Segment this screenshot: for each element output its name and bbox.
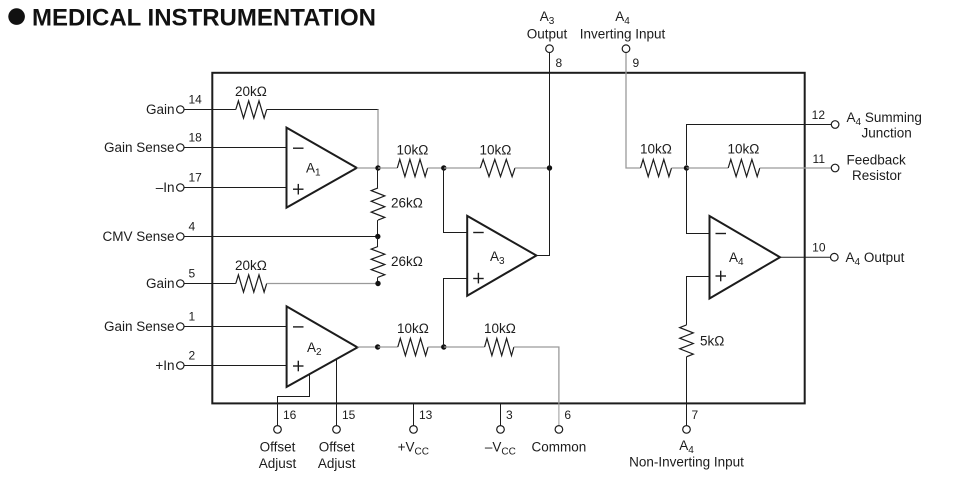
svg-text:7: 7 — [692, 408, 699, 422]
svg-text:3: 3 — [506, 408, 513, 422]
wire 10k second to pin8 column node — [515, 167, 549, 169]
IC boundary box — [212, 73, 804, 404]
svg-text:15: 15 — [342, 408, 356, 422]
svg-text:–In: –In — [156, 180, 175, 195]
svg-text:Adjust: Adjust — [318, 456, 356, 471]
resistor 26k lower — [371, 247, 385, 278]
svg-text:5: 5 — [189, 267, 196, 281]
pin 15 terminal circle — [333, 426, 341, 434]
svg-text:Gain: Gain — [146, 102, 175, 117]
svg-text:11: 11 — [813, 152, 826, 166]
svg-text:20kΩ: 20kΩ — [235, 84, 267, 99]
svg-text:2: 2 — [189, 349, 196, 363]
op-amp A3 — [467, 216, 536, 296]
node A2 output junction — [375, 344, 380, 349]
svg-text:Inverting Input: Inverting Input — [580, 27, 666, 42]
svg-text:4: 4 — [189, 220, 196, 234]
wire summing node to A4 minus input — [687, 168, 710, 234]
svg-text:Gain: Gain — [146, 276, 175, 291]
svg-text:17: 17 — [189, 171, 203, 185]
svg-text:Non-Inverting Input: Non-Inverting Input — [629, 455, 744, 470]
wire corner down to A1 output node — [377, 110, 379, 169]
pin 10 terminal circle — [831, 253, 839, 261]
svg-text:14: 14 — [189, 93, 203, 107]
pin 6 stub wire — [558, 403, 560, 425]
wire pin14 row to resistor — [212, 109, 236, 111]
svg-text:8: 8 — [556, 56, 563, 70]
svg-text:26kΩ: 26kΩ — [391, 254, 423, 269]
wire 10k second to pin6 corner — [514, 347, 559, 403]
wire pin1 row to A2 minus input — [212, 326, 286, 328]
svg-text:10kΩ: 10kΩ — [397, 321, 429, 336]
pin 4 terminal circle (CMV Sense) — [177, 233, 184, 240]
node pin5 gain junction — [375, 281, 380, 286]
pin 16 terminal circle — [274, 426, 282, 434]
wire 5k down to pin 7 — [686, 357, 688, 426]
wire 20k to node — [267, 283, 378, 285]
svg-text:1: 1 — [189, 310, 196, 324]
svg-text:Offset: Offset — [319, 440, 355, 455]
svg-text:Common: Common — [532, 440, 587, 455]
wire node to 26k upper — [377, 168, 379, 188]
svg-text:10kΩ: 10kΩ — [728, 142, 760, 157]
wire node2 to 10k second — [444, 167, 480, 169]
pin 14 terminal circle (Gain) — [177, 106, 184, 113]
resistor 10k (A1 out row, second) — [480, 159, 515, 176]
node pin8 column junction — [547, 165, 552, 170]
svg-text:16: 16 — [283, 408, 297, 422]
svg-text:Gain Sense: Gain Sense — [104, 140, 175, 155]
node A1 output junction — [375, 165, 380, 170]
pin 1 stub wire — [184, 326, 212, 328]
wire pin5 row to resistor — [212, 283, 236, 285]
svg-text:Output: Output — [527, 27, 568, 42]
pin 13 stub wire — [413, 403, 415, 425]
wire 10k to node2 — [428, 167, 444, 169]
pin 12 terminal circle — [831, 121, 839, 129]
wire pin8 column above box — [549, 53, 551, 169]
svg-text:9: 9 — [633, 56, 640, 70]
svg-text:20kΩ: 20kΩ — [235, 258, 267, 273]
wire pin17 row to A1 plus input — [212, 187, 286, 189]
wire pin2 row to A2 plus input — [212, 365, 286, 367]
pin 5 stub wire — [184, 283, 212, 285]
wire top mid node down to A3 minus — [444, 168, 468, 233]
op-amp A4 — [710, 216, 781, 299]
svg-text:Feedback: Feedback — [847, 153, 907, 168]
wire node to 10k feedback — [686, 167, 728, 169]
pin 8 terminal circle — [546, 45, 554, 53]
wire 10k to node2 — [428, 346, 444, 348]
pin 2 stub wire — [184, 365, 212, 367]
svg-text:12: 12 — [812, 108, 826, 122]
pin 1 terminal circle (Gain Sense) — [177, 323, 184, 330]
resistor 20k (top, pin14 gain) — [236, 101, 267, 118]
wire offset adjust 2 (to pin 15) — [336, 359, 338, 426]
svg-text:5kΩ: 5kΩ — [700, 334, 724, 349]
wire pin12 to summing node — [687, 125, 832, 166]
resistor 26k upper — [371, 188, 385, 220]
pin 4 stub wire — [184, 236, 212, 238]
svg-text:CMV Sense: CMV Sense — [102, 229, 174, 244]
wire node2 to 10k second — [444, 346, 485, 348]
wire 26k lower to gain node — [377, 277, 379, 283]
svg-text:–VCC: –VCC — [485, 440, 516, 458]
pin 9 terminal circle — [622, 45, 630, 53]
resistor 5k — [680, 325, 694, 357]
pin 3 terminal circle — [497, 426, 505, 434]
pin 17 terminal circle (–In) — [177, 184, 184, 191]
pin 17 stub wire — [184, 187, 212, 189]
svg-text:10kΩ: 10kΩ — [640, 142, 672, 157]
resistor 10k (A1 out row, first) — [397, 159, 427, 176]
wire A2 output to node — [358, 346, 378, 348]
wire A3 output — [536, 168, 549, 256]
node top row mid junction — [441, 165, 446, 170]
pin 15 stub wire — [336, 403, 338, 425]
svg-text:A4: A4 — [679, 438, 694, 456]
wire pin4 CMV Sense row to node — [212, 236, 377, 238]
svg-text:MEDICAL INSTRUMENTATION: MEDICAL INSTRUMENTATION — [32, 5, 376, 32]
svg-text:10: 10 — [812, 241, 826, 255]
wire bottom mid node up to A3 plus — [444, 279, 468, 348]
resistor 10k (feedback) — [728, 159, 760, 176]
wire pin9 column — [626, 53, 641, 169]
svg-text:13: 13 — [419, 408, 433, 422]
svg-text:Gain Sense: Gain Sense — [104, 319, 175, 334]
svg-text:Junction: Junction — [862, 126, 912, 141]
node CMV sense junction — [375, 234, 380, 239]
svg-text:26kΩ: 26kΩ — [391, 196, 423, 211]
wire 10k to summing node — [672, 167, 687, 169]
svg-text:10kΩ: 10kΩ — [480, 143, 512, 158]
wire 20k to corner — [267, 109, 379, 111]
wire node to 10k — [378, 167, 397, 169]
op-amp A2 — [287, 306, 358, 387]
svg-text:Adjust: Adjust — [259, 456, 297, 471]
svg-text:10kΩ: 10kΩ — [484, 321, 516, 336]
wire A4 output to pin 10 — [780, 256, 831, 258]
svg-text:A4 Output: A4 Output — [846, 250, 905, 268]
pin 13 terminal circle — [410, 426, 418, 434]
pin 7 terminal circle — [683, 426, 691, 434]
pin 14 stub wire — [184, 109, 212, 111]
pin 3 stub wire — [500, 403, 502, 425]
wire feedback 10k to pin 11 — [760, 167, 832, 169]
title bullet — [8, 8, 25, 25]
svg-text:A4: A4 — [615, 9, 630, 27]
svg-text:+In: +In — [155, 358, 174, 373]
svg-text:+VCC: +VCC — [398, 440, 429, 458]
pin 2 terminal circle (+In) — [177, 362, 184, 369]
resistor 10k (A2 out row, first) — [398, 338, 428, 355]
pin 18 stub wire — [184, 147, 212, 149]
pin 5 terminal circle (Gain) — [177, 280, 184, 287]
wire A1 output to node — [357, 167, 378, 169]
wire node to 10k — [378, 346, 398, 348]
wire CMV node to 26k lower — [377, 237, 379, 247]
svg-text:Resistor: Resistor — [852, 168, 902, 183]
op-amp A1 — [287, 128, 357, 208]
wire pin18 row to A1 minus input — [212, 147, 286, 149]
wire 26k upper to CMV node — [377, 220, 379, 236]
svg-text:Offset: Offset — [260, 440, 296, 455]
svg-text:18: 18 — [189, 131, 203, 145]
pin 16 stub wire — [277, 403, 279, 425]
pin 11 terminal circle — [831, 164, 839, 172]
resistor 20k (lower, pin5 gain) — [236, 275, 267, 292]
svg-text:A3: A3 — [540, 9, 555, 27]
svg-text:6: 6 — [564, 408, 571, 422]
svg-text:10kΩ: 10kΩ — [397, 143, 429, 158]
wire A4 plus input to 5k — [687, 277, 710, 325]
pin 6 terminal circle — [555, 426, 563, 434]
node A4 summing junction — [684, 165, 689, 170]
pin 18 terminal circle (Gain Sense) — [177, 144, 184, 151]
wire offset adjust 1 (to pin 16) — [278, 375, 310, 426]
resistor 10k (A4 inverting input) — [641, 159, 672, 176]
resistor 10k (A2 out row, second) — [485, 338, 514, 355]
node bottom row mid junction — [441, 344, 446, 349]
